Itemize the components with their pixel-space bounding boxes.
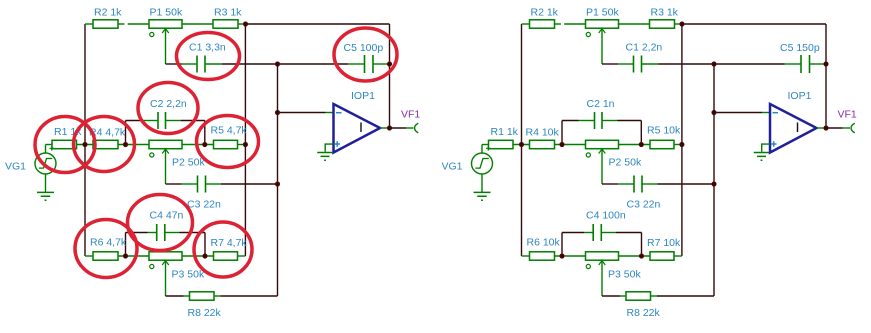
potentiometer P3 [586,252,619,269]
annotation ellipse around C2 [138,83,198,134]
wire (feedback top) [680,23,826,25]
wire [618,120,642,122]
junction node (C5 / output column) [824,62,829,67]
junction node (P3 / C4 / R7) [639,254,644,259]
junction node (R4 / C2 / P2) [123,142,128,147]
wire [184,295,190,297]
svg-text:P2 50k: P2 50k [609,157,642,169]
wire [843,127,851,129]
wire [555,144,586,146]
resistor R5 (R5 4,7k) [214,140,238,148]
resistor R1 (R1 1k) [489,140,514,148]
wire (feedback top) [244,23,390,25]
wire [602,295,620,297]
capacitor C2 (C2 2,2n) [158,112,166,129]
svg-text:C1 3,3n: C1 3,3n [189,42,226,54]
svg-text:R6 10k: R6 10k [527,237,561,249]
wire [166,295,184,297]
output terminal VF1 [415,123,419,133]
svg-text:P3 50k: P3 50k [608,269,641,281]
wire (P3 wiper) [165,260,167,296]
potentiometer P1 [149,20,182,37]
wire [206,63,223,65]
svg-text:P3 50k: P3 50k [172,269,205,281]
svg-text:IOP1: IOP1 [351,90,375,102]
wire [166,63,182,65]
wire [555,23,562,25]
svg-text:R4 10k: R4 10k [526,127,560,139]
junction node (P3 / C4 / R7) [203,254,208,259]
wire (middle feedback column) [681,24,683,256]
wire [810,63,826,65]
wire [77,144,94,146]
potentiometer P2 [586,140,619,157]
junction node (R1 / left rail) [83,142,88,147]
potentiometer P1 [586,20,619,37]
junction node (C3 / inverting net) [712,182,717,187]
svg-text:R3 1k: R3 1k [651,7,679,19]
svg-text:C3 22n: C3 22n [627,199,661,211]
wire [165,232,179,234]
svg-text:VF1: VF1 [838,109,857,121]
wire [182,63,197,65]
capacitor C2 (C2 1n) [595,112,603,129]
resistor R8 (R8 22k) [626,292,651,300]
wire (P1 wiper) [601,29,603,64]
ground (op-amp) [754,153,770,161]
resistor R2 (R2 1k) [530,20,555,28]
wire [564,23,585,25]
wire (VG1 ground lead) [45,174,47,192]
junction node (R3 / feedback column) [680,22,685,27]
svg-text:R3 1k: R3 1k [214,7,242,19]
ground (op-amp) [317,153,333,161]
voltage generator VG1 [35,146,56,174]
potentiometer P2 [149,140,182,157]
wire [182,144,214,146]
svg-text:VG1: VG1 [5,161,26,173]
wire [221,183,278,185]
junction node (P2 / C2 / R5) [203,142,208,147]
wire [166,183,182,185]
wire [238,23,244,25]
annotation ellipse around R7 [194,222,252,277]
wire [762,112,770,114]
wire [616,232,642,234]
resistor R2 (R2 1k) [93,20,118,28]
wire [674,255,682,257]
wire [785,63,801,65]
wire (P1 wiper) [165,29,167,64]
junction node (R5 / feedback column) [680,142,685,147]
wire [618,183,634,185]
svg-text:R6 4,7k: R6 4,7k [90,237,127,249]
junction node (C1 row / inverting net) [275,62,280,67]
svg-text:C5 100p: C5 100p [344,42,384,54]
wire [603,120,618,122]
wire [85,23,93,25]
voltage generator VG1 [472,146,493,174]
capacitor C1 (C1 3,3n) [197,56,205,73]
svg-text:R5 4,7k: R5 4,7k [211,125,248,137]
svg-text:P1 50k: P1 50k [586,7,619,19]
junction node (inverting input) [275,110,280,115]
svg-text:C2 2,2n: C2 2,2n [150,98,187,110]
wire [674,144,682,146]
resistor R1 (R1 1k) [52,140,77,148]
wire [126,120,143,122]
wire [482,144,489,146]
wire [118,144,149,146]
wire [642,63,659,65]
wire (non-inverting input) [325,144,333,152]
wire [238,144,246,146]
ground (VG1) [474,192,491,200]
wire [555,255,586,257]
wire [182,183,198,185]
capacitor C4 (C4 47n) [157,224,165,241]
wire [602,63,618,65]
wire [522,255,530,257]
annotation ellipse around R5 [197,116,259,168]
wire [619,23,650,25]
wire (inverting net column) [277,64,279,296]
wire (op-amp output lead) [817,127,825,129]
wire [390,127,407,129]
wire [602,232,616,234]
wire [374,63,390,65]
svg-text:C5 150p: C5 150p [780,42,820,54]
wire (C4 right leg) [641,233,643,257]
wire [657,295,714,297]
wire (VG1 top lead) [45,145,47,154]
wire [406,127,414,129]
wire [182,23,213,25]
wire (P3 wiper) [601,260,603,296]
wire [46,144,53,146]
wire [651,295,658,297]
svg-text:R1 1k: R1 1k [491,126,519,138]
wire (non-inverting input) [762,144,770,152]
wire [180,232,206,234]
wire [214,295,221,297]
wire [562,120,579,122]
svg-text:P2 50k: P2 50k [172,157,205,169]
wire (left rail) [84,24,86,256]
svg-text:VF1: VF1 [401,109,420,121]
wire [206,183,221,185]
wire (P2 wiper) [601,149,603,184]
annotation ellipse around R1 [35,117,95,173]
wire (C2 right leg) [640,121,642,145]
wire [118,23,125,25]
wire (right feedback rail) [389,24,391,128]
wire [826,127,843,129]
wire (C4 left leg) [125,233,127,257]
svg-text:R5 10k: R5 10k [647,125,681,137]
wire [619,144,651,146]
wire [181,120,205,122]
wire (middle feedback column) [244,24,246,256]
svg-text:C3 22n: C3 22n [187,199,221,211]
wire (inverting net column) [713,64,715,296]
wire [182,255,214,257]
svg-text:C4 100n: C4 100n [586,210,626,222]
wire [643,183,658,185]
junction node (inverting input) [712,110,717,115]
junction node (R6 / C4 / P3) [123,254,128,259]
wire [579,120,594,122]
junction node (P2 / C2 / R5) [639,142,644,147]
wire [562,232,584,234]
right circuit (clean copy) [442,7,857,320]
wire [326,112,334,114]
capacitor C3 (C3 22n) [634,176,642,193]
wire [128,23,149,25]
wire (C2 right leg) [204,121,206,145]
wire [618,63,633,65]
wire [619,255,651,257]
wire [513,144,530,146]
resistor R5 (R5 10k) [650,140,674,148]
wire [602,183,618,185]
junction node (output) [824,126,829,131]
wire [238,255,246,257]
wire [222,63,348,65]
svg-text:R8 22k: R8 22k [188,307,222,319]
resistor R3 (R3 1k) [213,20,238,28]
junction node (output) [387,126,392,131]
wire [620,295,626,297]
op-amp IOP1 [334,104,381,153]
wire [148,232,157,234]
junction node (C3 / inverting net) [275,182,280,187]
potentiometer P3 [149,252,182,269]
resistor R4 (R4 10k) [530,140,555,148]
svg-text:R7 10k: R7 10k [647,237,681,249]
capacitor C4 (C4 100n) [593,224,601,241]
svg-text:VG1: VG1 [442,161,463,173]
resistor R3 (R3 1k) [650,20,675,28]
wire (right feedback rail) [825,24,827,128]
junction node (R5 / feedback column) [243,142,248,147]
junction node (R6 / C4 / P3) [560,254,565,259]
junction node (C5 / output column) [387,62,392,67]
wire [348,63,364,65]
wire [118,255,149,257]
junction node (R4 / C2 / P2) [560,142,565,147]
output terminal VF1 [851,123,855,133]
wire (C2 left leg) [125,121,127,145]
svg-text:P1 50k: P1 50k [150,7,183,19]
ground (VG1) [37,192,54,200]
svg-text:IOP1: IOP1 [788,90,812,102]
wire [675,23,681,25]
wire (VG1 ground lead) [481,174,483,192]
wire (inverting input) [714,112,762,114]
svg-text:R8 22k: R8 22k [627,307,661,319]
junction node (R3 / feedback column) [243,22,248,27]
wire (op-amp output lead) [380,127,388,129]
annotation ellipse around R6 [75,220,137,278]
wire (VG1 top lead) [481,145,483,154]
annotation ellipse around C4 [128,195,193,251]
annotation ellipse around C5 [334,28,397,81]
svg-text:C1 2,2n: C1 2,2n [626,42,663,54]
annotation ellipse around C1 [177,33,240,80]
junction node (R1 / left rail) [519,142,524,147]
annotation ellipse around R4 [74,117,135,172]
op-amp IOP1 [770,104,817,153]
resistor R7 (R7 10k) [650,252,674,260]
wire (inverting input) [278,112,326,114]
wire (left rail) [521,24,523,256]
svg-text:R7 4,7k: R7 4,7k [211,237,248,249]
resistor R8 (R8 22k) [190,292,215,300]
svg-text:C2 1n: C2 1n [587,98,615,110]
wire [85,255,93,257]
svg-text:R2 1k: R2 1k [94,7,122,19]
resistor R4 (R4 4,7k) [93,140,118,148]
wire (C4 left leg) [561,233,563,257]
svg-text:C4 47n: C4 47n [150,210,184,222]
junction node (C1 row / inverting net) [712,62,717,67]
wire [522,23,530,25]
capacitor C3 (C3 22n) [198,176,206,193]
wire [142,120,157,122]
wire (P2 wiper) [165,149,167,184]
resistor R6 (R6 10k) [530,252,555,260]
wire (C4 right leg) [204,233,206,257]
svg-text:R2 1k: R2 1k [531,7,559,19]
wire [658,183,715,185]
left circuit (annotated copy) [5,7,420,320]
capacitor C5 (C5 150p) [801,55,810,73]
wire (C2 left leg) [561,121,563,145]
wire [584,232,593,234]
resistor R7 (R7 4,7k) [214,252,238,260]
capacitor C1 (C1 2,2n) [634,56,642,73]
wire [126,232,148,234]
wire [221,295,278,297]
wire [166,120,181,122]
wire [659,63,785,65]
resistor R6 (R6 4,7k) [93,252,118,260]
capacitor C5 (C5 100p) [365,55,374,73]
